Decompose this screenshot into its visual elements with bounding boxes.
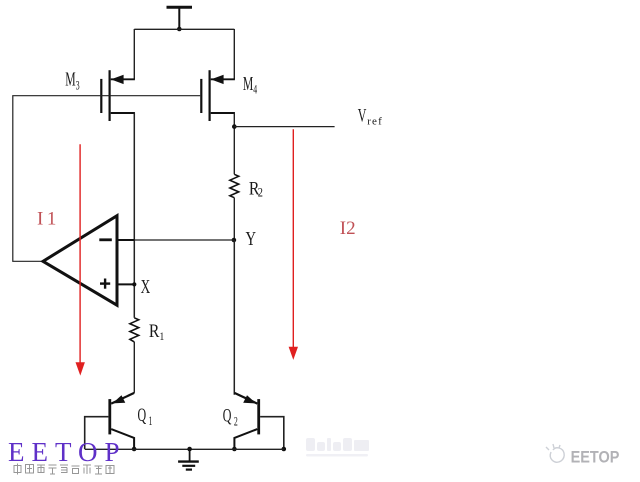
wire Vref bbox=[234, 126, 334, 128]
watermark baidu bbox=[306, 438, 369, 457]
svg-text:I1: I1 bbox=[37, 209, 60, 230]
resistor R2 bbox=[230, 174, 239, 197]
svg-text:EETOP: EETOP bbox=[571, 448, 620, 467]
current arrow I2 bbox=[289, 129, 298, 360]
svg-text:Q2: Q2 bbox=[223, 406, 238, 429]
svg-text:M3: M3 bbox=[65, 70, 79, 93]
wire gate line bbox=[13, 96, 200, 262]
wire inverting input to node Y bbox=[117, 239, 135, 241]
label R1 bbox=[149, 320, 164, 343]
wire ground rail bbox=[85, 448, 284, 450]
wire M3 drain to node X to R1 bbox=[111, 112, 135, 114]
svg-text:X: X bbox=[141, 275, 151, 298]
op-amp U1 bbox=[43, 216, 117, 306]
EETOP logo tagline bbox=[14, 464, 114, 475]
label Q1 bbox=[138, 405, 153, 428]
transistor Q1 bbox=[85, 393, 135, 449]
resistor R1 bbox=[130, 318, 139, 342]
wire M4 source drop bbox=[233, 29, 235, 79]
svg-text:M4: M4 bbox=[243, 74, 258, 97]
label Y bbox=[246, 227, 257, 250]
svg-text:I2: I2 bbox=[340, 218, 356, 239]
junction dot ground tap bbox=[187, 447, 192, 452]
ground bbox=[178, 449, 199, 470]
junction dot Q2 base bbox=[282, 447, 287, 452]
transistor M4 bbox=[201, 70, 223, 121]
label M3 bbox=[65, 70, 79, 93]
transistor M3 bbox=[101, 70, 123, 121]
svg-text:V: V bbox=[358, 106, 367, 126]
node Y junction dot bbox=[232, 238, 237, 243]
svg-text:Q1: Q1 bbox=[138, 405, 153, 428]
wire Y to Q2 emitter bbox=[233, 240, 235, 395]
label M4 bbox=[243, 74, 258, 97]
svg-text:R1: R1 bbox=[149, 320, 164, 343]
wire R2 to node Y bbox=[233, 198, 235, 240]
node Vref junction dot bbox=[232, 124, 237, 129]
wire M4 drain to Vref node bbox=[211, 112, 235, 114]
wire M3 source drop bbox=[133, 29, 135, 79]
label Vref bbox=[358, 106, 367, 126]
wire R1 to Q1 emitter bbox=[133, 342, 135, 393]
label X bbox=[141, 275, 151, 298]
label R2 bbox=[249, 177, 263, 200]
svg-text:R2: R2 bbox=[249, 177, 263, 200]
svg-text:EETOP: EETOP bbox=[8, 437, 127, 467]
wire non-inverting input to node X bbox=[117, 283, 135, 285]
wire top rail bbox=[134, 28, 234, 30]
svg-text:ref: ref bbox=[367, 115, 383, 127]
watermark hand icon bbox=[546, 444, 564, 462]
transistor Q2 bbox=[234, 393, 283, 449]
junction dot Q2 collector bbox=[232, 447, 237, 452]
junction dot Q1 collector bbox=[132, 447, 137, 452]
current arrow I1 bbox=[76, 144, 85, 375]
label Q2 bbox=[223, 406, 238, 429]
junction dot VDD bbox=[177, 27, 182, 32]
node X junction dot bbox=[132, 282, 136, 286]
VDD supply bar bbox=[167, 7, 193, 29]
svg-text:Y: Y bbox=[246, 227, 257, 250]
